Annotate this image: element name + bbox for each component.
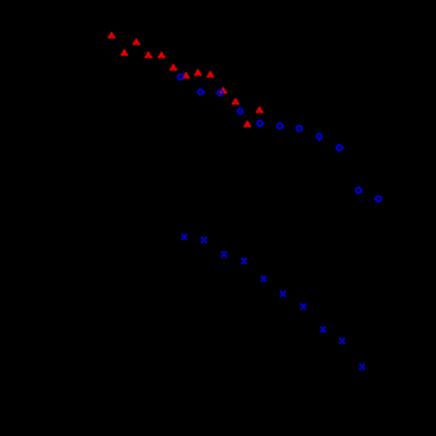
hydroxyl OH2	[133, 39, 140, 45]
ring oxygen O9	[337, 145, 344, 150]
ring oxygen O1	[178, 74, 183, 79]
amine nitrogen N1	[181, 234, 187, 240]
amine nitrogen N2	[201, 237, 207, 243]
hydroxyl OH7	[182, 72, 189, 78]
ring oxygen O7	[297, 126, 302, 131]
hydroxyl OH8	[194, 69, 201, 75]
hydroxyl OH6	[170, 64, 177, 70]
ring oxygen O8	[316, 134, 321, 141]
ring oxygen O11	[374, 196, 381, 201]
ring oxygen O6	[277, 123, 284, 128]
hydroxyl OH5	[158, 52, 165, 58]
hydroxyl OH10	[220, 87, 227, 93]
hydroxyl OH12	[256, 107, 263, 113]
amine nitrogen N5	[261, 276, 267, 282]
hydroxyl OH9	[207, 71, 214, 77]
ring oxygen O5	[257, 121, 264, 126]
amine nitrogen N9	[339, 338, 345, 344]
ring oxygen O4	[237, 108, 242, 113]
ring oxygen O10	[356, 188, 363, 193]
amine nitrogen N8	[320, 327, 326, 333]
ring oxygen O2	[198, 89, 205, 94]
hydroxyl OH1	[108, 32, 115, 38]
amine nitrogen N6	[280, 291, 286, 297]
hydroxyl OH13	[244, 121, 251, 127]
ring oxygen O3	[218, 90, 223, 95]
hydroxyl OH3	[121, 49, 128, 55]
hydroxyl OH4	[145, 52, 152, 58]
hydroxyl OH11	[232, 98, 239, 104]
amine nitrogen N10	[359, 364, 365, 370]
amine nitrogen N4	[241, 258, 247, 264]
amine nitrogen N7	[300, 304, 306, 310]
amine nitrogen N3	[221, 251, 227, 257]
